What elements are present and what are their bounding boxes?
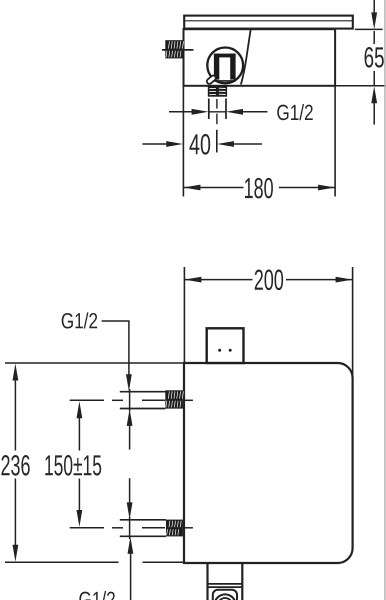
dim 65 (right) — [355, 28, 383, 30]
236 bottom ext line — [5, 561, 119, 563]
label 65 — [365, 47, 384, 68]
G1/2 leader (lower) — [128, 537, 134, 554]
outlet thread (below body) — [208, 86, 227, 97]
ext line pipe centerline down — [216, 130, 218, 153]
fitting B (lower left, front view) — [120, 520, 166, 537]
dim 150±15 — [77, 401, 83, 418]
fitting B ext tick — [129, 517, 131, 539]
fitting A (upper left, front view) — [120, 392, 166, 409]
dim 236 — [13, 364, 19, 381]
label 150±15 — [45, 455, 101, 476]
label 200 — [255, 270, 283, 291]
dim 40 — [142, 143, 262, 145]
G1/2 leader (upper) — [62, 312, 97, 328]
ext line body left edge down — [182, 86, 184, 197]
dim 200 — [183, 267, 185, 363]
fitting A centerline — [70, 399, 193, 401]
label 236 — [1, 455, 29, 476]
inlet thread fitting (left, side view) — [165, 40, 183, 58]
label 180 — [245, 178, 273, 199]
label 40 — [189, 134, 210, 155]
fitting A thread — [165, 390, 183, 408]
lever knob — [206, 75, 217, 85]
dim 180 — [334, 86, 336, 197]
fitting A ext tick — [129, 389, 131, 411]
236 top ext line — [5, 362, 183, 364]
outlet pipe edges — [208, 99, 210, 120]
spout curve — [241, 29, 251, 84]
inlet centerline — [162, 49, 194, 51]
outlet pipe centerline (dashed) — [216, 99, 218, 109]
body (front view) — [184, 363, 353, 563]
holder bracket — [214, 54, 236, 58]
body (side view) — [184, 29, 336, 86]
dim G1/2 (top view) arrows — [169, 111, 268, 113]
bottom outlet — [206, 563, 208, 600]
fitting B thread — [166, 520, 183, 537]
top square outlet — [207, 328, 244, 363]
fitting B centerline — [70, 527, 193, 529]
right page edge — [384, 0, 386, 600]
deck plate — [184, 16, 353, 29]
holder circle — [207, 48, 243, 84]
dots — [218, 349, 221, 352]
label G1/2 (top view) — [277, 104, 312, 120]
arrow pair between fittings — [127, 409, 133, 426]
